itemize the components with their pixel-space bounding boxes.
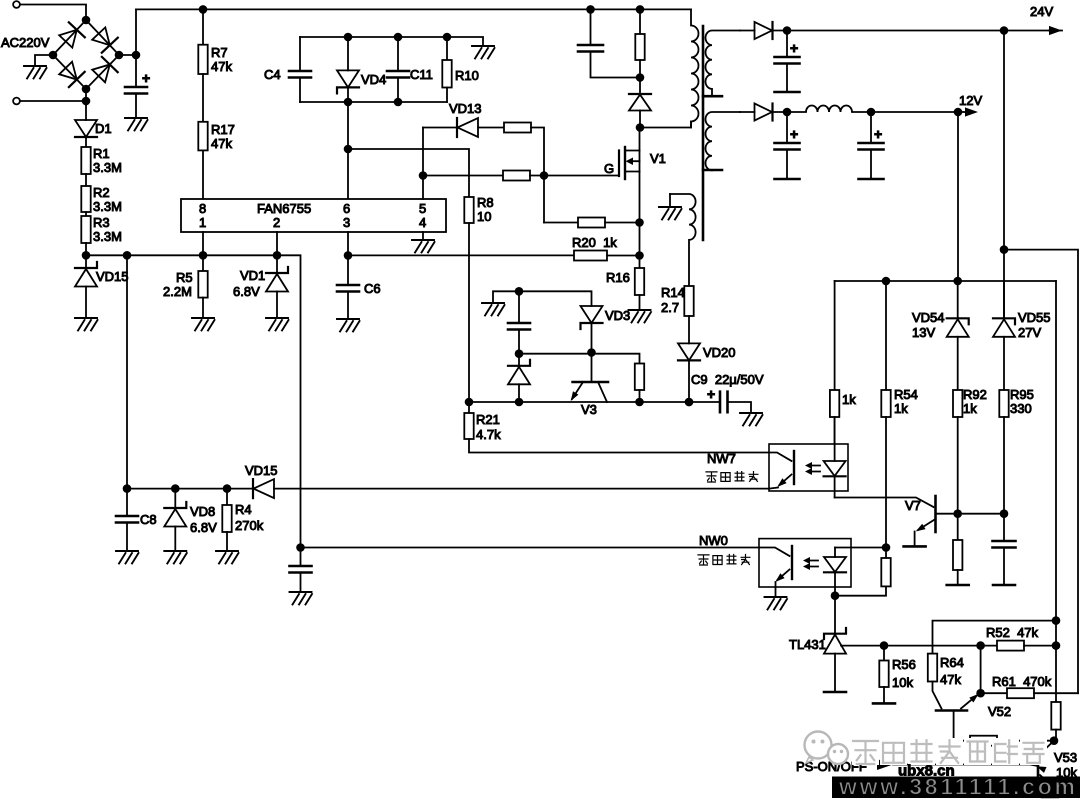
wire <box>587 323 596 382</box>
diode VD20 <box>678 343 736 360</box>
AC input terminal (top) <box>13 1 20 8</box>
svg-text:C8: C8 <box>140 512 157 527</box>
svg-text:2: 2 <box>273 215 280 230</box>
transformer core <box>702 26 705 240</box>
input filter capacitor <box>125 70 150 94</box>
svg-text:FAN6755: FAN6755 <box>257 201 311 216</box>
wire upper bias <box>933 621 1057 654</box>
capacitor return terminal <box>775 178 800 181</box>
resistor R92 1k <box>953 337 987 417</box>
svg-text:VD3: VD3 <box>605 308 630 323</box>
NW7 labels <box>706 451 758 482</box>
resistor R20 1k <box>572 235 617 261</box>
wire <box>685 360 694 406</box>
svg-text:3: 3 <box>343 215 350 230</box>
filter inductor <box>787 106 871 112</box>
resistor (gate) <box>503 171 530 181</box>
svg-text:47k: 47k <box>940 672 961 687</box>
svg-text:8: 8 <box>199 201 206 216</box>
resistor R10 <box>442 37 479 102</box>
resistor (V7 load) <box>953 514 962 585</box>
V52 emitter wire <box>976 646 985 698</box>
ground <box>24 66 47 79</box>
svg-text:R95: R95 <box>1010 387 1034 402</box>
wire <box>348 254 574 256</box>
top rail <box>136 5 691 14</box>
svg-text:R64: R64 <box>940 655 964 670</box>
R56 terminal <box>873 702 895 705</box>
optocoupler NW7 box <box>769 444 848 491</box>
secondary 2 return terminal <box>703 169 722 172</box>
svg-text:1k: 1k <box>894 401 908 416</box>
resistor R5 2.2M <box>163 255 208 318</box>
wire <box>1024 645 1056 647</box>
svg-text:2.7: 2.7 <box>661 300 679 315</box>
resistor (gate) <box>504 123 531 133</box>
svg-text:3.3M: 3.3M <box>93 199 122 214</box>
wire <box>35 55 53 66</box>
svg-text:VD55: VD55 <box>1018 310 1051 325</box>
resistor R4 270k <box>222 489 263 551</box>
MOSFET V1 <box>619 147 666 179</box>
diode VD15 <box>245 463 278 498</box>
svg-text:C4: C4 <box>264 67 281 82</box>
svg-text:R4: R4 <box>235 502 252 517</box>
AC220V label <box>1 35 50 50</box>
ground <box>629 310 652 323</box>
wire <box>85 212 87 216</box>
wire <box>126 255 128 488</box>
wire <box>423 175 503 177</box>
wire <box>478 127 504 129</box>
wire <box>348 149 469 197</box>
banner <box>832 774 1080 800</box>
wire <box>519 354 640 364</box>
rectifier diode (24V) <box>740 22 787 39</box>
gate label G <box>604 161 614 176</box>
svg-text:+: + <box>707 386 715 402</box>
resistor R17 47k <box>198 122 235 151</box>
zener VD15 <box>75 262 129 287</box>
wire <box>202 150 204 199</box>
ground <box>740 413 763 426</box>
filter capacitor (12V output) <box>859 108 884 179</box>
terminal <box>947 584 969 587</box>
wire 12V feed <box>957 112 959 281</box>
snubber capacitor <box>578 9 640 77</box>
resistor R21 4.7k <box>464 402 501 442</box>
optocoupler NW0 box <box>759 539 851 587</box>
wire <box>86 251 301 548</box>
NW0 light arrows <box>803 557 818 570</box>
V1 drain wire <box>639 128 641 151</box>
12V arrow <box>958 93 982 117</box>
svg-text:2.2M: 2.2M <box>163 284 192 299</box>
zener VD1 6.8V <box>233 255 288 318</box>
NW0 phototransistor <box>759 546 792 597</box>
NW0 LED <box>824 548 846 596</box>
svg-text:R56: R56 <box>892 657 916 672</box>
R61 row <box>981 692 1007 694</box>
wire <box>544 222 578 224</box>
svg-text:R20 1k: R20 1k <box>572 235 617 250</box>
svg-text:G: G <box>604 161 614 176</box>
resistor R95 330 <box>999 337 1034 417</box>
svg-text:+: + <box>790 40 798 56</box>
PS-ON/OFF label <box>796 759 893 774</box>
ground <box>216 551 239 564</box>
resistor 1k (NW7) <box>830 390 856 417</box>
snubber diode <box>629 78 651 132</box>
wire <box>834 281 836 390</box>
svg-text:10: 10 <box>477 209 491 224</box>
wire to NW0 collector <box>296 543 759 552</box>
wire <box>1052 281 1061 702</box>
watermark ubx8.cn <box>898 763 955 780</box>
filter capacitor (12V input) <box>775 108 800 179</box>
wire <box>202 74 204 122</box>
pin 4 wire <box>422 232 424 240</box>
NW7 phototransistor <box>769 451 794 489</box>
svg-text:1k: 1k <box>963 401 977 416</box>
V3 row <box>465 398 720 407</box>
svg-text:6.8V: 6.8V <box>190 520 217 535</box>
wire <box>640 122 691 128</box>
svg-text:6: 6 <box>343 201 350 216</box>
ground <box>482 303 505 316</box>
capacitor C8 <box>116 489 157 551</box>
capacitor return terminal <box>859 178 884 181</box>
svg-text:VD13: VD13 <box>449 101 482 116</box>
capacitor C4 <box>264 37 311 102</box>
svg-text:VD15: VD15 <box>96 269 129 284</box>
V7 emitter ground <box>904 545 926 548</box>
24V rail <box>783 26 1049 35</box>
wire <box>85 287 87 319</box>
ground <box>765 597 788 610</box>
resistor R52 47k <box>986 625 1039 651</box>
svg-text:R3: R3 <box>93 215 110 230</box>
svg-text:VD20: VD20 <box>703 345 736 360</box>
svg-text:3.3M: 3.3M <box>93 229 122 244</box>
svg-text:C11: C11 <box>410 67 433 82</box>
svg-text:24V: 24V <box>1030 4 1053 19</box>
V7 collector rail <box>953 509 1008 518</box>
capacitor return terminal <box>775 91 800 94</box>
svg-text:NW7: NW7 <box>707 451 736 466</box>
svg-text:R10: R10 <box>455 68 479 83</box>
wire <box>997 736 1058 745</box>
resistor R14 2.7 <box>661 285 694 316</box>
rectifier diode (12V) <box>740 104 787 121</box>
svg-text:R17: R17 <box>211 122 235 137</box>
wire <box>85 174 87 186</box>
ground <box>472 46 495 59</box>
V1 source wire <box>639 172 641 256</box>
zener VD54 13V <box>912 281 969 340</box>
capacitor C11 <box>387 37 433 102</box>
svg-text:4: 4 <box>419 215 426 230</box>
wire to NW7 emitter <box>274 488 769 490</box>
zener VD8 6.8V <box>164 489 217 551</box>
capacitor (V7) <box>993 514 1016 585</box>
zener VD55 27V <box>993 281 1051 340</box>
wire <box>300 33 483 46</box>
12V rail <box>871 108 962 117</box>
svg-text:12V: 12V <box>959 93 982 108</box>
resistor R54 1k <box>881 387 918 417</box>
wire <box>344 102 353 199</box>
resistor R64 47k <box>928 654 964 687</box>
svg-text:AC220V: AC220V <box>1 35 50 50</box>
svg-text:VD1: VD1 <box>240 268 265 283</box>
wire <box>885 417 887 548</box>
capacitor C9 22u/50V <box>691 372 764 413</box>
transistor V3 <box>571 382 608 417</box>
bridge rectifier diode (left-bottom) <box>53 55 86 89</box>
zener (V3 block) <box>508 349 530 402</box>
secondary side rail <box>835 277 1056 286</box>
TL431 anode terminal <box>824 691 846 694</box>
svg-text:V3: V3 <box>581 402 597 417</box>
svg-text:47k: 47k <box>211 59 232 74</box>
resistor (V3 pulldown) <box>635 364 644 403</box>
svg-text:270k: 270k <box>235 518 264 533</box>
svg-text:R16: R16 <box>606 270 630 285</box>
ground <box>116 551 139 564</box>
svg-text:5: 5 <box>419 201 426 216</box>
svg-text:3.3M: 3.3M <box>93 160 122 175</box>
pin 2 wire <box>276 232 278 255</box>
svg-text:TL431: TL431 <box>789 637 826 652</box>
svg-text:27V: 27V <box>1018 325 1041 340</box>
ground <box>266 318 289 331</box>
wire <box>82 243 91 268</box>
wire <box>135 94 137 119</box>
resistor (gate pulldown) <box>578 218 605 228</box>
svg-text:NW0: NW0 <box>699 533 728 548</box>
ground <box>337 319 360 332</box>
svg-text:+: + <box>142 70 150 86</box>
transformer auxiliary winding <box>670 194 696 286</box>
transistor V7 <box>905 496 958 546</box>
wire <box>607 251 644 260</box>
ground <box>290 592 313 605</box>
resistor R16 <box>606 256 644 311</box>
transistor V53 <box>893 741 1077 797</box>
resistor (NW0 parallel) <box>831 548 891 601</box>
wire <box>85 137 87 147</box>
TL431 ref row <box>841 641 997 650</box>
svg-text:10k: 10k <box>892 675 913 690</box>
wire 24V branch <box>1004 250 1078 694</box>
V53 emitter terminal <box>1042 796 1058 799</box>
svg-text:R52 47k: R52 47k <box>986 625 1039 640</box>
resistor R3 3.3M <box>81 215 122 244</box>
svg-text:R5: R5 <box>176 270 193 285</box>
svg-text:R61 470k: R61 470k <box>992 674 1052 689</box>
wire <box>1034 692 1078 694</box>
diode D1 <box>75 89 112 137</box>
resistor R8 10 <box>464 195 493 224</box>
wire <box>531 128 548 223</box>
wire <box>530 175 619 177</box>
zener VD4 <box>337 37 386 102</box>
wire 24V feed <box>1000 31 1009 319</box>
svg-text:D1: D1 <box>95 121 112 136</box>
svg-text:13V: 13V <box>912 325 935 340</box>
zener VD3 <box>581 306 631 329</box>
wire <box>20 97 90 106</box>
svg-text:+: + <box>874 126 882 142</box>
terminal <box>993 584 1015 587</box>
resistor (V53 collector) <box>1051 702 1060 741</box>
transformer secondary winding (24V) <box>706 31 740 97</box>
resistor R1 3.3M <box>81 146 122 175</box>
wire <box>423 127 457 129</box>
wire <box>300 98 447 107</box>
svg-text:6.8V: 6.8V <box>233 284 260 299</box>
svg-text:V1: V1 <box>650 151 666 166</box>
wire <box>119 51 140 60</box>
filter capacitor (24V) <box>775 31 800 93</box>
wire <box>123 484 253 493</box>
bridge rectifier diode (left-top) <box>53 20 86 55</box>
wire <box>834 417 836 444</box>
diode VD13 <box>449 101 482 137</box>
NW7 light arrows <box>805 462 820 475</box>
secondary 1 return terminal <box>703 95 722 98</box>
pin 3 wire <box>347 232 349 255</box>
svg-text:1: 1 <box>199 215 206 230</box>
svg-text:R21: R21 <box>476 412 500 427</box>
svg-text:V52: V52 <box>988 704 1011 719</box>
svg-text:VD8: VD8 <box>190 504 215 519</box>
wire <box>493 287 592 306</box>
resistor R7 47k <box>198 45 232 74</box>
svg-text:C6: C6 <box>364 281 381 296</box>
bridge nodes <box>49 16 124 94</box>
svg-text:VD15: VD15 <box>245 463 278 478</box>
NW0 anode wire <box>835 543 890 552</box>
transistor V52 <box>933 682 1012 720</box>
wire <box>468 223 470 402</box>
svg-text:R14: R14 <box>661 285 685 300</box>
TL431 <box>789 596 846 692</box>
svg-text:R7: R7 <box>211 45 228 60</box>
snubber resistor <box>635 9 644 81</box>
svg-text:+: + <box>790 126 798 142</box>
transformer secondary winding (12V) <box>706 112 741 170</box>
wire <box>20 5 86 21</box>
wire <box>1003 417 1005 514</box>
pin 1 wire <box>202 232 204 255</box>
svg-text:R1: R1 <box>93 146 110 161</box>
watermark text <box>852 738 1047 765</box>
wire <box>669 194 671 207</box>
svg-text:R2: R2 <box>93 185 110 200</box>
AC input terminal (bottom) <box>13 98 20 105</box>
svg-text:www.3811111.com: www.3811111.com <box>838 774 1075 800</box>
wire <box>885 281 887 390</box>
24V arrow <box>1030 4 1062 35</box>
svg-text:1k: 1k <box>842 392 856 407</box>
IC FAN6755 <box>181 199 446 232</box>
svg-text:4.7k: 4.7k <box>476 427 501 442</box>
svg-text:47k: 47k <box>211 136 232 151</box>
capacitor C6 <box>337 251 381 319</box>
resistor R56 10k <box>879 646 916 704</box>
watermark wechat logo <box>805 732 849 765</box>
svg-text:330: 330 <box>1010 401 1032 416</box>
ground <box>164 551 187 564</box>
pin 5 wire <box>419 128 428 200</box>
svg-text:R8: R8 <box>477 195 494 210</box>
resistor R2 3.3M <box>81 185 122 214</box>
svg-text:C9 22μ/50V: C9 22μ/50V <box>691 372 764 387</box>
ground <box>412 240 435 253</box>
resistor R61 470k <box>992 674 1052 698</box>
wire <box>135 9 137 87</box>
ground <box>125 118 148 131</box>
svg-text:V53: V53 <box>1054 750 1077 765</box>
wire to NW7 collector <box>469 439 769 453</box>
svg-text:R54: R54 <box>894 387 918 402</box>
V52 base wire <box>954 711 970 741</box>
wire <box>688 316 690 343</box>
svg-text:V7: V7 <box>905 498 921 513</box>
svg-text:VD54: VD54 <box>912 310 945 325</box>
bridge rectifier diode (bottom-right) <box>86 55 119 89</box>
resistor (V52 base) <box>970 736 997 746</box>
transformer primary winding <box>691 9 699 127</box>
capacitor (FB filter) <box>290 548 312 593</box>
ground <box>75 318 98 331</box>
wire <box>202 9 204 44</box>
wire <box>605 218 644 227</box>
wire NW7 cathode to V7 base <box>835 498 934 508</box>
bridge rectifier diode (top-right) <box>86 20 119 55</box>
wire <box>957 417 959 514</box>
svg-text:R92: R92 <box>963 387 987 402</box>
ground <box>192 318 215 331</box>
capacitor (V3 block) <box>508 291 530 353</box>
NW7 LED <box>824 417 846 498</box>
svg-text:VD4: VD4 <box>361 72 386 87</box>
NW0 labels <box>698 533 750 565</box>
ground <box>659 207 682 220</box>
